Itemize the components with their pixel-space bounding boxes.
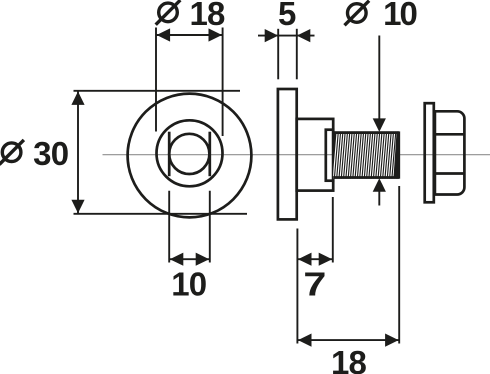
dim Ø10 arrow upper (points down) [373, 118, 386, 131]
dim Ø18 extension line left [155, 28, 157, 132]
svg-text:18: 18 [189, 0, 225, 32]
dim 10 line [169, 258, 210, 260]
dim Ø30 arrow top [71, 91, 84, 105]
dim Ø30 line [77, 91, 79, 214]
dim 10 extension line right [209, 191, 211, 263]
dim Ø18 line [156, 34, 223, 36]
center line [103, 154, 490, 156]
dim 5 extension line left [277, 29, 279, 80]
dim Ø18 arrow right [209, 28, 223, 41]
dim Ø10 leader line upper [378, 36, 380, 121]
dim 7 line [297, 258, 332, 260]
svg-text:30: 30 [33, 135, 68, 172]
dim 5 extension line right [296, 29, 298, 80]
thread runout collar [326, 130, 333, 181]
dim 7 extension line right [332, 197, 334, 263]
dim Ø30 extension line top [74, 90, 241, 92]
dim 18 arrow right (points right) [385, 334, 399, 347]
dim 7 label [303, 266, 326, 303]
dim Ø10 leader line lower [378, 190, 380, 206]
dim 18 extension line right [398, 186, 400, 344]
dim 10 arrow right (points right) [196, 253, 210, 266]
dim 10 extension line left [168, 191, 170, 263]
flange plate side [278, 89, 297, 219]
shaft circle front (Ø10) [169, 134, 209, 174]
dim 5 arrow right (outside, points left) [297, 29, 311, 42]
dim Ø30 extension line bottom [74, 213, 248, 215]
svg-text:10: 10 [383, 0, 416, 32]
thread end chamfer [394, 133, 399, 178]
svg-text:18: 18 [331, 344, 367, 374]
dim Ø30 arrow bottom [71, 200, 84, 214]
nut flange washer [425, 103, 434, 202]
dim 5 arrow left (outside, points right) [265, 29, 279, 42]
dim 18 arrow left (points left) [298, 334, 312, 347]
dim Ø18 label [159, 3, 178, 22]
boss circle front (Ø18) [157, 120, 223, 186]
dim Ø18 arrow left [157, 28, 171, 41]
dim 7 extension line left (shared with dim 18) [296, 229, 298, 344]
thread hatching [333, 131, 401, 179]
svg-text:10: 10 [171, 266, 206, 303]
dim 7 arrow left (points left) [298, 253, 312, 266]
nut facet line lower [435, 172, 465, 175]
dim 5 line [258, 35, 315, 37]
dim 7 arrow right (points right) [319, 253, 333, 266]
dim Ø18 extension line right [222, 28, 224, 137]
shaft tangent line right [208, 132, 211, 177]
flange circle front (outline Ø30) [128, 94, 252, 218]
dim Ø10 label [348, 4, 367, 23]
dim Ø10 arrow lower (points up) [373, 178, 386, 192]
thread outline [333, 131, 399, 134]
dim 18 line [297, 339, 399, 341]
svg-text:7: 7 [303, 266, 326, 303]
dim Ø30 label [2, 143, 21, 162]
dim 10 arrow left (points left) [170, 253, 184, 266]
boss cylinder side [297, 119, 334, 191]
shaft tangent line left [168, 132, 171, 177]
nut hex body [435, 111, 465, 194]
nut facet line upper [435, 133, 465, 136]
svg-text:5: 5 [278, 0, 296, 32]
